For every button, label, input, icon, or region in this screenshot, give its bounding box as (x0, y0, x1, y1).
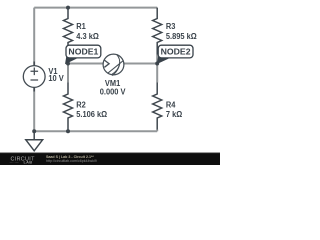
wire node2 down to R4 (156, 64, 158, 83)
svg-text:0.000 V: 0.000 V (100, 87, 126, 96)
resistor R4 (153, 83, 162, 130)
voltmeter VM1 (103, 54, 124, 76)
wire R3 lower lead to node2 (156, 55, 158, 64)
svg-text:NODE2: NODE2 (161, 46, 191, 56)
resistor R1 (64, 8, 73, 55)
svg-text:—··—·: —··—· (10, 160, 20, 164)
ground (26, 131, 43, 151)
junction dot node A (NODE1) (66, 62, 70, 66)
wire R2 to bottom rail (67, 130, 69, 132)
wire left rail upper (33, 8, 35, 66)
junction dot R2 bottom tap (66, 129, 70, 133)
wire node1 down to R2 (67, 64, 69, 83)
svg-text:R3: R3 (166, 22, 176, 31)
wire R1 lower lead to node1 (67, 55, 69, 64)
svg-text:4.3 kΩ: 4.3 kΩ (76, 31, 99, 40)
wire top rail (34, 7, 157, 9)
CircuitLab logo (10, 156, 35, 164)
wire R4 to bottom rail (156, 130, 158, 132)
svg-text:R2: R2 (76, 100, 86, 109)
junction dot ground tap (32, 129, 36, 133)
junction dot node B (NODE2) (155, 62, 159, 66)
svg-text:10 V: 10 V (48, 74, 64, 83)
wire node1 to voltmeter (68, 63, 103, 65)
svg-text:R1: R1 (76, 22, 86, 31)
node NODE2 flag (157, 45, 194, 64)
svg-text:5.895 kΩ: 5.895 kΩ (166, 31, 197, 40)
wire bottom rail (34, 130, 157, 132)
svg-text:5.106 kΩ: 5.106 kΩ (76, 110, 107, 119)
svg-text:http://circuitlab.com/c6pk44wk: http://circuitlab.com/c6pk44wkl9 (46, 159, 97, 163)
footer bar (0, 153, 220, 166)
svg-text:LAB: LAB (24, 160, 33, 165)
node NODE1 flag (65, 45, 101, 64)
resistor R3 (153, 8, 162, 55)
wire voltmeter to node2 (124, 63, 157, 65)
resistor R2 (64, 83, 73, 130)
svg-text:R4: R4 (166, 100, 176, 109)
junction dot top R1 tap (66, 6, 70, 10)
wire left rail lower (33, 87, 35, 131)
voltage source V1 (23, 62, 45, 92)
svg-text:7 kΩ: 7 kΩ (166, 110, 182, 119)
svg-text:NODE1: NODE1 (68, 46, 98, 56)
